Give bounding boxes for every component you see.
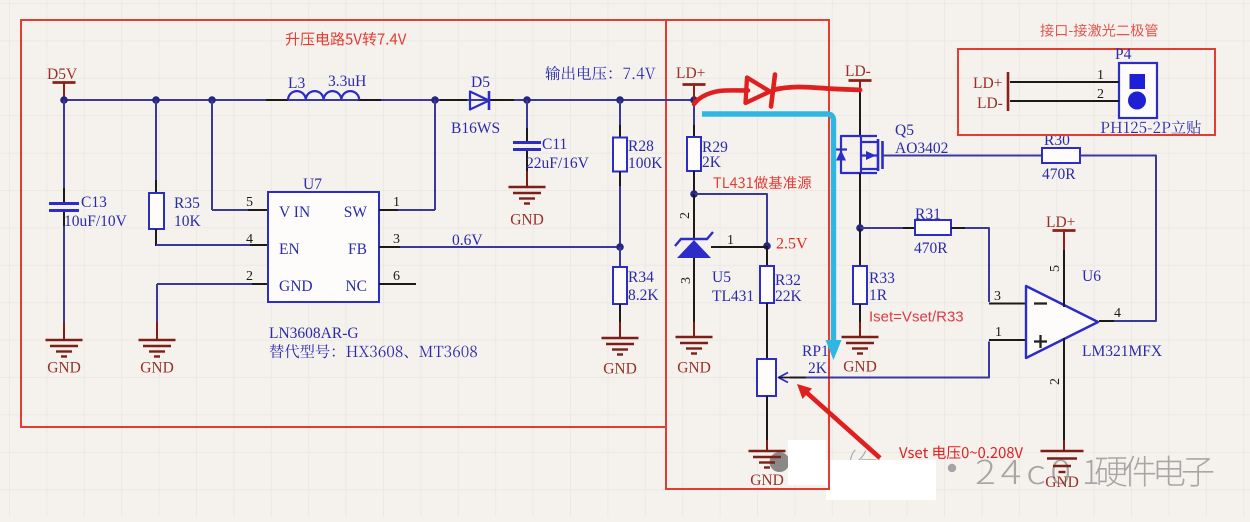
svg-text:5: 5 bbox=[246, 195, 253, 210]
junction: Q5 drain / R31 node bbox=[856, 224, 864, 232]
svg-text:D5: D5 bbox=[471, 74, 490, 91]
ground: U7 bbox=[139, 322, 176, 377]
resistor R29 2K bbox=[687, 100, 728, 194]
power flag D5V bbox=[47, 66, 78, 100]
annotation: red arrow pointing to RP1 wiper bbox=[797, 384, 880, 458]
watermark text bbox=[850, 450, 1213, 487]
svg-text:GND: GND bbox=[279, 278, 313, 295]
svg-text:22uF/16V: 22uF/16V bbox=[526, 155, 590, 172]
svg-text:2: 2 bbox=[1097, 87, 1104, 102]
annotation: cyan current path arrow bbox=[702, 114, 842, 360]
svg-text:B16WS: B16WS bbox=[451, 120, 500, 137]
ground: U5 bbox=[676, 322, 713, 377]
svg-text:2K: 2K bbox=[702, 154, 722, 171]
junction: rail at R28 bbox=[616, 96, 624, 104]
connector P4 PH125-2P bbox=[973, 46, 1157, 118]
inductor L3 3.3uH bbox=[288, 73, 366, 100]
power flag LD- bbox=[845, 63, 872, 92]
svg-text:RP1: RP1 bbox=[802, 343, 829, 360]
wire: FB pin to divider bbox=[379, 246, 620, 248]
annotation box: TL431 section bbox=[666, 20, 829, 489]
svg-text:5: 5 bbox=[1048, 265, 1063, 272]
svg-text:R31: R31 bbox=[915, 206, 941, 223]
svg-text:C13: C13 bbox=[81, 194, 107, 211]
svg-text:GND: GND bbox=[1045, 474, 1079, 491]
annotation title 升压电路5V转7.4V bbox=[286, 32, 407, 46]
svg-text:L3: L3 bbox=[288, 75, 305, 92]
svg-text:22K: 22K bbox=[775, 288, 803, 305]
svg-text:3: 3 bbox=[994, 289, 1001, 304]
svg-text:GND: GND bbox=[510, 212, 544, 229]
junction: rail at C11 bbox=[523, 96, 531, 104]
resistor R35 10K bbox=[149, 100, 202, 246]
junction: rail at LD+ bbox=[690, 96, 698, 104]
svg-text:LD-: LD- bbox=[845, 63, 871, 80]
resistor R33 1R bbox=[853, 228, 895, 322]
resistor R30 470R bbox=[1042, 132, 1080, 183]
net label 0.6V bbox=[452, 232, 483, 249]
watermark white patches bbox=[788, 440, 936, 500]
svg-text:4: 4 bbox=[1114, 306, 1121, 321]
ground: U6 bbox=[1041, 440, 1084, 491]
svg-text:LD+: LD+ bbox=[973, 75, 1002, 92]
annotation box: laser diode interface bbox=[958, 49, 1215, 135]
svg-text:AO3402: AO3402 bbox=[895, 140, 948, 157]
junction: rail at SW bbox=[431, 96, 439, 104]
power flag LD+ (op-amp supply) bbox=[1046, 214, 1076, 250]
annotation box: boost circuit section bbox=[21, 20, 666, 427]
svg-text:3: 3 bbox=[393, 232, 400, 247]
potentiometer RP1 2K bbox=[757, 343, 829, 396]
wire: R35 to EN pin bbox=[156, 244, 268, 246]
svg-text:GND: GND bbox=[677, 360, 711, 377]
svg-text:2.5V: 2.5V bbox=[776, 236, 808, 253]
svg-text:2: 2 bbox=[246, 269, 253, 284]
svg-text:4: 4 bbox=[246, 232, 253, 247]
wire: Q5 gate to R30 bbox=[883, 155, 1042, 157]
svg-text:SW: SW bbox=[344, 204, 368, 221]
svg-text:V IN: V IN bbox=[279, 204, 310, 221]
wire: U7 GND pin bbox=[157, 284, 268, 322]
svg-text:LM321MFX: LM321MFX bbox=[1082, 343, 1162, 360]
svg-text:6: 6 bbox=[393, 269, 400, 284]
svg-text:TL431: TL431 bbox=[712, 288, 754, 305]
junction: rail at C13 bbox=[60, 96, 68, 104]
resistor R34 8.2K bbox=[613, 247, 659, 322]
resistor R28 100K bbox=[613, 100, 663, 247]
svg-text:1: 1 bbox=[727, 233, 734, 248]
svg-text:470R: 470R bbox=[914, 240, 948, 257]
svg-text:GND: GND bbox=[140, 360, 174, 377]
svg-text:8.2K: 8.2K bbox=[628, 287, 659, 304]
wire: wiper Vset to op-amp +input bbox=[790, 340, 1026, 378]
svg-text:3.3uH: 3.3uH bbox=[328, 73, 366, 90]
svg-text:NC: NC bbox=[345, 278, 367, 295]
junction: rail at R35 bbox=[152, 96, 160, 104]
annotation Iset=Vset/R33 bbox=[869, 309, 964, 326]
junction: FB node bbox=[616, 243, 624, 251]
capacitor C11 bbox=[513, 100, 590, 172]
svg-text:1: 1 bbox=[995, 325, 1002, 340]
annotation 替代型号：HX3608、MT3608 bbox=[270, 344, 477, 358]
svg-text:R32: R32 bbox=[775, 272, 801, 289]
svg-text:LN3608AR-G: LN3608AR-G bbox=[269, 325, 359, 342]
svg-text:R33: R33 bbox=[869, 270, 895, 287]
svg-text:U6: U6 bbox=[1082, 268, 1101, 285]
ground: C13 bbox=[46, 322, 83, 377]
wire: SW pin to rail bbox=[379, 100, 435, 210]
svg-text:LD+: LD+ bbox=[676, 65, 705, 82]
op-amp U6 LM321MFX bbox=[994, 250, 1162, 440]
svg-text:Q5: Q5 bbox=[895, 122, 914, 139]
ground: C11 bbox=[509, 171, 546, 229]
svg-text:LD+: LD+ bbox=[1046, 214, 1075, 231]
annotation TL431做基准源 bbox=[713, 176, 811, 189]
svg-text:1: 1 bbox=[393, 195, 400, 210]
wire: cathode to R32 top bbox=[694, 194, 767, 246]
svg-text:LD-: LD- bbox=[977, 95, 1003, 112]
ground: R34 bbox=[602, 322, 639, 378]
svg-text:R34: R34 bbox=[628, 269, 654, 286]
svg-text:GND: GND bbox=[843, 359, 877, 376]
svg-text:100K: 100K bbox=[628, 155, 663, 172]
svg-text:EN: EN bbox=[279, 241, 300, 258]
junction: 2.5V node bbox=[763, 242, 771, 250]
svg-text:U5: U5 bbox=[712, 269, 731, 286]
svg-text:D5V: D5V bbox=[47, 66, 78, 83]
svg-text:1: 1 bbox=[1097, 68, 1104, 83]
wire: op-amp output feedback bbox=[1080, 156, 1156, 322]
resistor R31 470R bbox=[860, 206, 965, 257]
svg-text:470R: 470R bbox=[1042, 166, 1076, 183]
svg-text:C11: C11 bbox=[542, 136, 567, 153]
wire: U7 NC pin bbox=[379, 283, 416, 285]
svg-text:U7: U7 bbox=[303, 176, 322, 193]
ground: R33 bbox=[842, 322, 879, 376]
svg-text:1R: 1R bbox=[869, 287, 888, 304]
resistor R32 22K bbox=[760, 246, 803, 359]
junction: rail at VIN bbox=[208, 96, 216, 104]
wire: 5V input rail and 7.4V output rail bbox=[64, 99, 694, 101]
wire: R31 to op-amp -input bbox=[965, 228, 1026, 304]
svg-text:3: 3 bbox=[679, 277, 694, 284]
svg-text:R28: R28 bbox=[628, 138, 654, 155]
annotation 2.5V bbox=[776, 236, 808, 253]
svg-text:2K: 2K bbox=[808, 360, 828, 377]
transistor Q5 AO3402 bbox=[836, 92, 948, 228]
svg-text:2: 2 bbox=[1048, 378, 1063, 385]
svg-text:Iset=Vset/R33: Iset=Vset/R33 bbox=[869, 309, 964, 326]
svg-text:P4: P4 bbox=[1115, 46, 1132, 63]
wire: rail to VIN pin bbox=[212, 100, 268, 210]
svg-text:GND: GND bbox=[603, 361, 637, 378]
svg-text:2: 2 bbox=[678, 212, 693, 219]
svg-text:GND: GND bbox=[47, 360, 81, 377]
ic U7 LN3608AR-G bbox=[246, 176, 400, 342]
svg-text:R35: R35 bbox=[174, 195, 200, 212]
power flag LD+ bbox=[676, 65, 706, 100]
junction: R29/cathode node bbox=[690, 190, 698, 198]
annotation 输出电压：7.4V bbox=[545, 66, 655, 80]
diode D5 B16WS bbox=[451, 74, 500, 137]
capacitor C13 bbox=[49, 100, 128, 322]
annotation PH125-2P立贴 bbox=[1101, 120, 1201, 134]
svg-text:FB: FB bbox=[348, 241, 367, 258]
shunt reference U5 TL431 bbox=[675, 194, 767, 322]
watermark logo disc bbox=[770, 452, 790, 472]
svg-text:10uF/10V: 10uF/10V bbox=[64, 213, 128, 230]
svg-text:0.6V: 0.6V bbox=[452, 232, 483, 249]
svg-text:10K: 10K bbox=[174, 213, 202, 230]
annotation 接口-接激光二极管 bbox=[1040, 24, 1157, 37]
ground: RP1 bbox=[749, 396, 786, 489]
annotation Vset 电压0~0.208V bbox=[899, 446, 1023, 460]
annotation: hand-drawn laser diode from LD+ to LD- bbox=[694, 75, 860, 107]
svg-text:GND: GND bbox=[750, 472, 784, 489]
